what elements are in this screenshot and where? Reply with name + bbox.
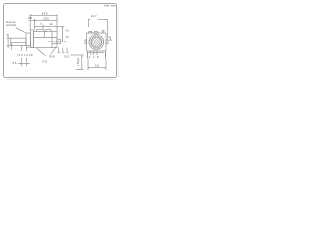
svg-text:Unit: mm: Unit: mm <box>104 4 117 8</box>
dim 7.5max line <box>81 55 83 69</box>
shaft dia ext top <box>7 37 11 39</box>
svg-text:7.5max: 7.5max <box>76 57 80 66</box>
front top tab 3 tick <box>102 30 104 33</box>
side view shaft flat line <box>11 42 26 44</box>
bottom 3.5 ext right lower <box>26 47 28 51</box>
dim 11.7 line right <box>98 19 108 21</box>
dim 7.5max arrow top <box>81 55 82 57</box>
dimension (20) arrow right <box>55 19 57 22</box>
bottom 3.5 ext left upper <box>21 46 23 52</box>
dim 2 tick <box>109 39 112 41</box>
svg-text:C: C <box>93 57 95 59</box>
front view body <box>87 33 107 51</box>
dim 11.7 line left <box>88 19 90 21</box>
svg-text:3.5: 3.5 <box>13 61 17 65</box>
pin tips <box>90 54 91 55</box>
frame shadow right <box>118 6 120 77</box>
mid height dim arrow top <box>62 27 63 29</box>
svg-text:B: B <box>97 57 99 59</box>
front leg left <box>86 51 88 58</box>
shaft dia dimension line <box>7 36 9 48</box>
dimension 24.5 arrow right <box>55 14 57 17</box>
svg-text:3.5: 3.5 <box>28 16 32 20</box>
dimension 3.5 line <box>30 20 34 22</box>
dim 9.2 ext left <box>87 59 89 70</box>
dimension 7/12 arrows middle <box>41 25 43 28</box>
side view internal horizontal 2 <box>52 43 57 45</box>
dim 11.7 ext left <box>87 20 89 28</box>
svg-text:terminal: terminal <box>6 23 16 27</box>
side view shaft <box>11 38 26 45</box>
dimension 24.5 ext left <box>29 14 31 30</box>
svg-text:11.7: 11.7 <box>91 14 97 18</box>
knurl hatch <box>89 34 104 49</box>
bottom 3.5 arrow left <box>20 62 22 65</box>
svg-text:12: 12 <box>49 22 53 26</box>
bottom 3.5 arrow right <box>27 62 29 65</box>
flat depth arrow <box>11 43 13 50</box>
side terminal 2 <box>63 48 65 53</box>
svg-text:4.5: 4.5 <box>65 29 69 33</box>
front top tab 1 <box>89 31 92 33</box>
dimension 12 line <box>43 25 57 27</box>
side terminal 3 <box>67 48 69 53</box>
dimension 7 line <box>34 25 43 27</box>
dim 7.5max ext bottom <box>76 68 84 70</box>
side terminal 1 <box>59 48 61 53</box>
dimension (20) line <box>34 20 57 22</box>
front left ear <box>85 40 87 44</box>
leader R0.5 left <box>37 48 46 55</box>
dim 9.2 arrow left <box>88 67 90 68</box>
bottom 3.5 dim line <box>18 63 30 65</box>
mid height dim ext top <box>58 26 65 28</box>
side view top tab 2 <box>46 30 51 32</box>
side view internal horizontal 1 <box>34 37 58 39</box>
side view top tab 1 <box>37 30 45 32</box>
frame shadow bottom <box>6 78 116 80</box>
svg-text:C0.5: C0.5 <box>64 55 70 59</box>
front base strip <box>88 52 104 54</box>
svg-text:A: A <box>89 56 91 59</box>
border frame <box>4 4 117 78</box>
dimension 24.5 line <box>30 15 57 17</box>
dim 9.2 line <box>88 67 106 69</box>
side view internal vertical 1 <box>44 32 46 38</box>
dim 7.5max arrow bottom <box>81 68 82 70</box>
svg-text:R0.5: R0.5 <box>49 55 55 59</box>
front terminal B pin <box>96 51 98 55</box>
dimension 12 arrow right <box>55 25 57 28</box>
bushing nut foot <box>27 46 34 48</box>
front terminal A pin <box>89 51 91 55</box>
dim 9.2 arrow right <box>104 67 106 68</box>
svg-text:(7.5): (7.5) <box>42 60 47 64</box>
side view front plate <box>31 30 34 48</box>
svg-text:7: 7 <box>40 22 42 26</box>
knurled shaft circle <box>89 35 104 50</box>
dim 11.7 arrow right <box>106 18 108 21</box>
side view bushing <box>26 33 31 46</box>
shaft dia arrow bottom <box>7 46 10 48</box>
mid height dimension line <box>62 27 64 42</box>
bottom 3.5 ext left lower <box>21 58 23 67</box>
shaft dia arrow top <box>7 37 10 39</box>
svg-text:(20): (20) <box>43 16 48 20</box>
dimension (20) arrow left <box>34 19 36 22</box>
dimension 7 arrow left <box>34 25 36 28</box>
dim 11.7 ext right <box>107 20 109 40</box>
dim 7.5max ext top <box>71 54 84 56</box>
mid height dim arrow bottom <box>62 40 63 42</box>
svg-text:(3.5 ± 0.15): (3.5 ± 0.15) <box>18 53 34 57</box>
front leg right <box>105 51 107 58</box>
dimension 24.5 ext right <box>56 14 58 31</box>
dimension 24.5 arrow left <box>30 14 32 17</box>
bottom 3.5 ext right <box>26 58 28 67</box>
dimension (20) ext <box>33 19 35 30</box>
front top tab 2 <box>95 31 98 33</box>
svg-text:9.2: 9.2 <box>95 64 99 68</box>
dim 2 line <box>110 37 112 40</box>
side view body <box>34 32 58 48</box>
front right ear <box>106 40 108 44</box>
dimension 12 ext <box>42 25 44 30</box>
leader R0.5 right <box>51 47 57 55</box>
svg-text:3.5: 3.5 <box>65 35 69 39</box>
side view internal vertical 2 <box>51 32 53 48</box>
dummy terminal leader <box>16 28 26 33</box>
dim 11.7 arrow left <box>88 18 90 21</box>
dim 9.2 ext right <box>105 59 107 70</box>
svg-text:⌀6: ⌀6 <box>6 33 9 36</box>
shaft centerline <box>48 40 67 42</box>
shaft dia ext bottom <box>7 45 11 47</box>
svg-text:24.5: 24.5 <box>42 12 48 16</box>
knurl inner circle <box>91 37 101 47</box>
dimension 3.5 arrow <box>29 19 31 22</box>
rear protrusion <box>57 39 61 43</box>
front terminal C pin <box>93 51 95 55</box>
